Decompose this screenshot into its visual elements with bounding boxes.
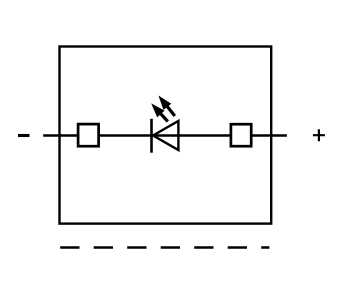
LED D1 triangle (153, 121, 178, 150)
LED light arrow 2 (158, 96, 174, 117)
module outline box (60, 47, 272, 224)
LED light arrow 1 (151, 103, 168, 121)
dashed separation line (60, 246, 269, 248)
terminal contact left (78, 124, 99, 146)
wire (43, 134, 287, 136)
terminal contact right (231, 124, 251, 146)
minus polarity label (18, 134, 30, 137)
plus polarity label (313, 129, 325, 141)
LED D1 cathode bar (150, 119, 153, 153)
